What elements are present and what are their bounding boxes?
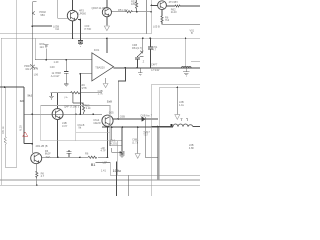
- node dot bus b2: [121, 126, 123, 128]
- svg-text:1.2F: 1.2F: [54, 60, 60, 64]
- svg-text:10k: 10k: [25, 67, 30, 71]
- red warning triangle: [23, 132, 28, 136]
- box step right: [117, 141, 119, 176]
- inductor L2: [173, 124, 193, 127]
- wire Q03 bottom out: [162, 21, 200, 24]
- wire bottom drop a: [116, 162, 118, 197]
- svg-text:2.2k: 2.2k: [86, 106, 92, 110]
- capacitor small plus: [67, 150, 72, 158]
- svg-text:B1: B1: [91, 163, 95, 167]
- arrow to supply Q02: [104, 26, 109, 31]
- node dot L6B: [177, 87, 179, 89]
- wire branch b1: [112, 127, 122, 152]
- wire node L03B: [32, 25, 52, 27]
- transistor Q03: [158, 1, 167, 10]
- svg-text:1k4: 1k4: [40, 45, 45, 49]
- trimmer PR02 wiper: [33, 11, 35, 14]
- svg-text:M.2B: M.2B: [20, 125, 23, 131]
- component box X1: [110, 140, 122, 146]
- svg-text:C4F7: C4F7: [151, 62, 158, 66]
- node dot q04e low: [57, 156, 59, 158]
- arrow supply L6B: [175, 115, 180, 120]
- svg-text:10k/W: 10k/W: [93, 121, 101, 125]
- transistor Q05 internals: [105, 116, 110, 125]
- wire Q05 bottom bus: [102, 126, 173, 128]
- svg-text:4.8F: 4.8F: [189, 146, 195, 150]
- wire emitter Q02: [106, 17, 108, 26]
- svg-text:TBA520: TBA520: [95, 65, 105, 69]
- wire emitter Q01: [72, 21, 74, 38]
- node dot R52: [136, 11, 138, 13]
- box right outer: [151, 85, 200, 196]
- node dot w114b: [80, 113, 82, 115]
- transistor Q06 internals: [34, 154, 39, 163]
- wire branch b3: [137, 127, 139, 153]
- svg-text:A.201: A.201: [110, 141, 117, 145]
- stub ground R60: [49, 93, 54, 99]
- ground C40: [64, 84, 69, 87]
- transistor Q03 internals: [160, 2, 164, 8]
- op-amp U1: [92, 53, 114, 81]
- svg-text:71/78: 71/78: [80, 86, 87, 90]
- node dot main v: [31, 113, 33, 115]
- wire output: [114, 67, 200, 69]
- wire L6B drop: [176, 87, 178, 114]
- node dot low2: [79, 156, 81, 158]
- trimmer PR03 wiper: [30, 64, 35, 69]
- svg-text:4.T2/W: 4.T2/W: [151, 68, 160, 72]
- box inner bottom: [76, 131, 110, 133]
- node dot q05e: [107, 156, 109, 158]
- ground output: [138, 73, 143, 76]
- wire base bus Q04: [24, 113, 102, 115]
- resistor R60: [71, 92, 81, 94]
- svg-text:IC01: IC01: [94, 48, 100, 52]
- wire Q01 right branch: [78, 20, 81, 44]
- svg-text:7k2: 7k2: [165, 18, 170, 22]
- wire gray vertical bus left: [16, 0, 18, 167]
- svg-text:R6: R6: [85, 151, 89, 155]
- wire left border vertical: [0, 38, 2, 185]
- ground C03: [78, 44, 83, 47]
- svg-text:4.7: 4.7: [153, 48, 157, 52]
- svg-text:C40: C40: [50, 65, 55, 69]
- svg-text:R71 1k: R71 1k: [2, 126, 5, 134]
- arrow supply b3: [135, 154, 140, 159]
- node dot bus b3: [137, 126, 139, 128]
- svg-text:Q05: Q05: [109, 111, 114, 115]
- resistor R63b: [161, 16, 163, 23]
- capacitor C51: [148, 47, 153, 49]
- node dot z1: [142, 37, 144, 39]
- node dot out1: [125, 67, 127, 69]
- node dot fb: [80, 73, 82, 75]
- ground C6x: [120, 155, 125, 158]
- svg-text:C6B: C6B: [120, 115, 125, 119]
- transistor Q01 internals: [70, 11, 75, 19]
- wire R03 tap: [34, 38, 36, 60]
- wire gray vertical pair a: [146, 0, 148, 34]
- node dot L03B: [31, 25, 33, 27]
- wire emitter Q04: [57, 120, 59, 158]
- node dot q05 bus: [107, 126, 109, 128]
- node dot sec: [157, 126, 159, 128]
- transistor Q06: [31, 153, 42, 164]
- node dot Q01 emitter rail: [72, 38, 74, 40]
- svg-text:4TC38Y: 4TC38Y: [169, 0, 179, 4]
- svg-text:B: B: [191, 31, 193, 35]
- transistor Q04 internals: [55, 110, 60, 119]
- polarity dot L2: [171, 124, 173, 126]
- wire emitter Q03: [161, 10, 163, 16]
- stub ground under opamp: [105, 78, 107, 84]
- box divider: [75, 106, 77, 141]
- svg-text:1.7k: 1.7k: [98, 92, 104, 96]
- capacitor C40: [64, 72, 69, 74]
- rail 2: [1, 37, 200, 39]
- box center block: [41, 106, 110, 141]
- svg-text:LP060: LP060: [78, 11, 86, 15]
- wire opamp input bottom: [80, 73, 92, 75]
- resistor R71: [4, 137, 6, 145]
- transistor Q02 internals: [105, 9, 109, 16]
- wire bottom drop b: [128, 175, 130, 196]
- wire jog: [5, 166, 17, 168]
- capacitor C4B: [135, 57, 140, 59]
- svg-text:8k2F: 8k2F: [45, 152, 51, 156]
- node dot w114c: [93, 113, 95, 115]
- rail bottom 2: [0, 184, 200, 186]
- svg-text:P.11.4B78: P.11.4B78: [97, 6, 109, 10]
- capacitor C6x: [120, 151, 125, 153]
- wire zener branch: [142, 38, 144, 50]
- svg-text:5k1: 5k1: [28, 93, 33, 97]
- rail bottom 1: [0, 179, 200, 181]
- inductor L1: [182, 67, 192, 68]
- svg-text:C6B Am.7: C6B Am.7: [140, 114, 152, 118]
- svg-text:3.3Y: 3.3Y: [62, 124, 68, 128]
- wire collector Q04: [57, 93, 59, 109]
- svg-text:R61(1.7): R61(1.7): [132, 46, 142, 50]
- ground R03: [44, 45, 49, 60]
- wire secondary drop: [157, 127, 159, 181]
- wire base feed Q01: [58, 0, 68, 18]
- node dot w114a: [75, 113, 77, 115]
- svg-text:1k8: 1k8: [107, 99, 112, 103]
- svg-text:4.7: 4.7: [41, 174, 45, 178]
- wire diode down: [145, 119, 158, 157]
- node dot input a: [45, 59, 47, 61]
- wire Q05 emitter down: [107, 126, 109, 157]
- transistor Q05: [102, 115, 113, 126]
- svg-text:984: 984: [40, 13, 45, 17]
- wire branch b2: [121, 127, 123, 155]
- node dot input b: [65, 59, 67, 61]
- rail 1: [0, 33, 151, 35]
- wire emitter bus low: [42, 156, 108, 158]
- wire fb down: [79, 74, 81, 115]
- box step around 100u: [96, 163, 200, 176]
- wire C40 branch: [65, 60, 67, 84]
- transistor Q02: [102, 8, 111, 17]
- svg-text:4R1.2B (B: 4R1.2B (B: [36, 144, 48, 148]
- svg-text:R51 4k7: R51 4k7: [118, 8, 128, 12]
- wire coil feed: [185, 38, 187, 66]
- node dot y87: [4, 86, 6, 88]
- wire C51 branch: [149, 38, 151, 68]
- wire collector Q01: [72, 0, 74, 10]
- node dot c4b: [137, 67, 139, 69]
- svg-text:2L20: 2L20: [171, 10, 177, 14]
- svg-text:NA: NA: [56, 27, 60, 31]
- wire gray vertical pair b: [150, 0, 152, 34]
- wire C4B branch: [136, 56, 138, 68]
- node dot coil feed: [185, 38, 187, 40]
- diode D1: [142, 117, 146, 121]
- wire Q06 emitter: [36, 164, 38, 186]
- wire secondary: [151, 126, 200, 128]
- wire opamp input top: [35, 59, 92, 61]
- svg-text:3/2: 3/2: [20, 99, 25, 103]
- resistor R51: [126, 11, 133, 13]
- pin stub top: [106, 38, 108, 53]
- svg-text:(1.7): (1.7): [132, 140, 137, 144]
- resistor R63: [73, 93, 85, 115]
- wire collector Q02: [106, 0, 108, 8]
- node dot q06 rail: [36, 184, 38, 186]
- svg-text:P.T0F: P.T0F: [85, 27, 92, 31]
- wire right stub: [191, 61, 200, 63]
- resistor R ebus: [88, 156, 97, 158]
- node dot Q01 right: [79, 19, 81, 21]
- svg-text:Q4F (T.180 3: Q4F (T.180 3: [64, 104, 80, 108]
- diode Z diagonal: [138, 50, 144, 56]
- svg-text:1.41: 1.41: [101, 168, 107, 172]
- wire top tick: [32, 1, 36, 3]
- node dot c51: [150, 37, 152, 39]
- node dot base Q03: [151, 5, 153, 7]
- svg-text:T.17: T.17: [143, 133, 148, 137]
- wire y87: [0, 87, 32, 144]
- wire Q05 right: [113, 118, 142, 120]
- wire gray vertical x5: [4, 87, 6, 167]
- wire Q03 right: [166, 5, 200, 7]
- svg-text:A-C1k7: A-C1k7: [51, 74, 60, 78]
- resistor R emitter Q06: [36, 171, 38, 177]
- node dot bus1: [150, 11, 152, 13]
- node dot bus b1: [111, 126, 113, 128]
- core ticks L2: [180, 119, 188, 122]
- svg-text:1%: 1%: [33, 67, 38, 71]
- svg-text:1.1k: 1.1k: [179, 103, 185, 107]
- wire base Q02: [112, 11, 152, 13]
- svg-text:180: 180: [131, 2, 136, 6]
- node dot fb2: [117, 118, 119, 120]
- transistor Q04: [52, 109, 63, 120]
- capacitor C03: [78, 40, 83, 42]
- transistor Q01: [67, 10, 78, 21]
- wire R60: [50, 92, 102, 94]
- stub ground output: [139, 68, 141, 73]
- arrow ground opamp: [103, 84, 108, 88]
- svg-text:L8F: L8F: [103, 161, 108, 165]
- ground L1 tap: [183, 68, 190, 76]
- svg-text:100u: 100u: [113, 169, 121, 173]
- svg-text:L06: L06: [34, 72, 39, 76]
- wire base Q03: [151, 4, 157, 6]
- wire feedback L: [118, 68, 125, 119]
- wire main vertical: [31, 2, 33, 153]
- svg-text:4.7F: 4.7F: [101, 149, 107, 153]
- diode D1 bar: [145, 117, 158, 121]
- resistor R62: [175, 5, 180, 7]
- svg-text:L05 B: L05 B: [153, 25, 160, 29]
- resistor R52: [136, 0, 138, 12]
- box right inner: [160, 87, 200, 180]
